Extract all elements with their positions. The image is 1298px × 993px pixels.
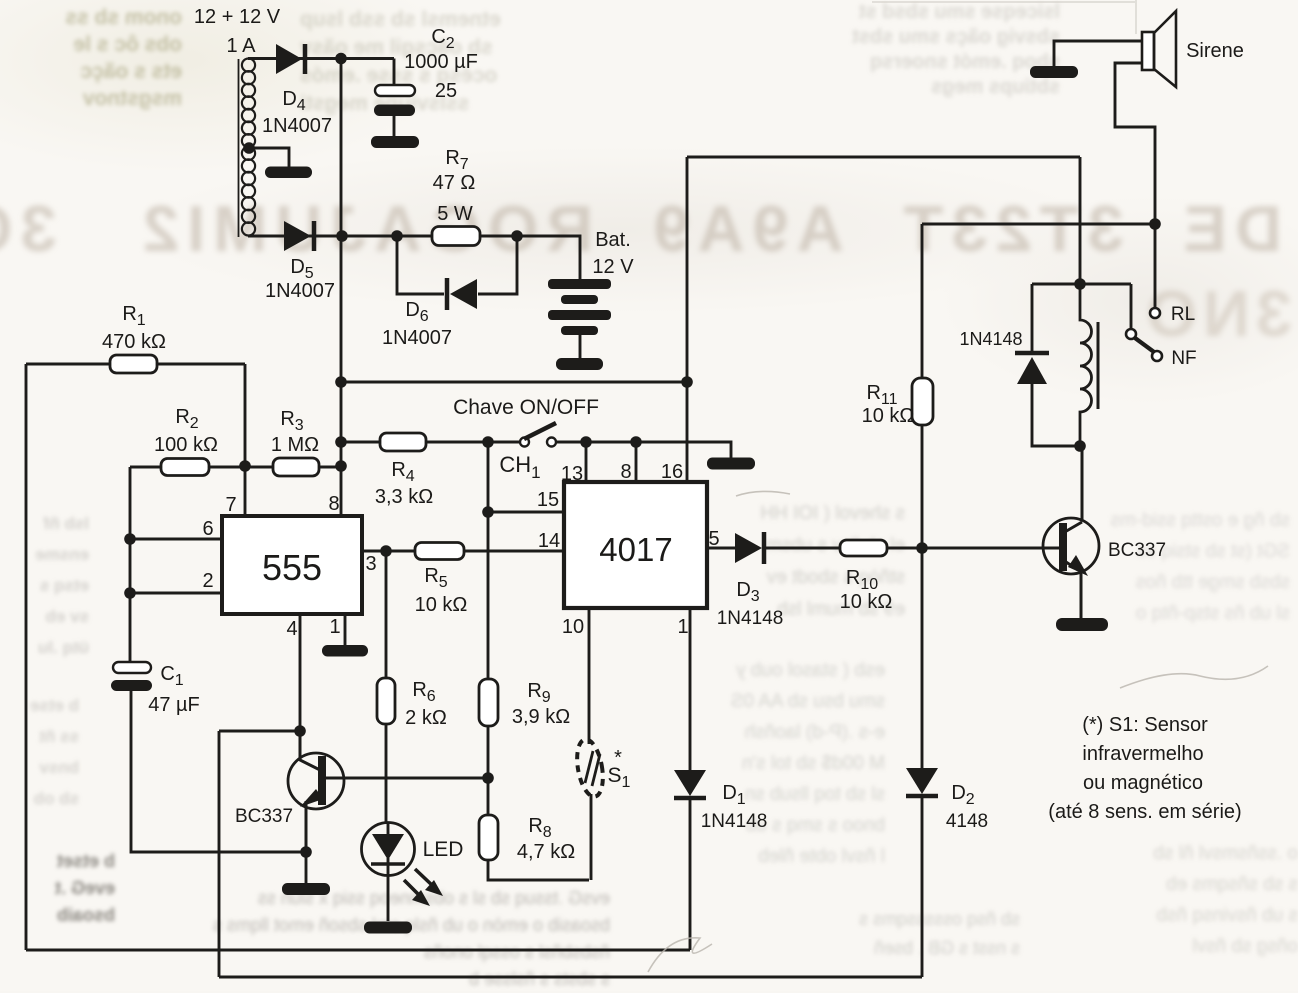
- svg-text:D5: D5: [290, 256, 313, 282]
- ground C2: [371, 136, 419, 148]
- capacitor C1: [113, 662, 151, 673]
- resistor R10: [840, 540, 887, 556]
- svg-text:4017: 4017: [599, 531, 672, 568]
- relay coil: [1080, 284, 1092, 446]
- resistor R8: [479, 815, 498, 860]
- svg-text:Bat.: Bat.: [595, 229, 631, 251]
- wire top rail y58: [248, 59, 394, 86]
- svg-text:D2: D2: [951, 782, 974, 808]
- LED LD1: [362, 823, 415, 876]
- relay contacts: [1130, 284, 1133, 329]
- svg-text:R5: R5: [424, 565, 447, 591]
- speaker driver: [1142, 32, 1154, 70]
- wire R6 vertical: [385, 551, 388, 678]
- svg-text:5 W: 5 W: [437, 203, 473, 225]
- diode D1: [674, 770, 706, 796]
- transformer T1 secondary winding: [242, 59, 255, 72]
- node Q1 emitter: [300, 846, 312, 858]
- node top of filter: [335, 53, 347, 65]
- wire RL up to rail: [1115, 63, 1155, 308]
- svg-text:1N4007: 1N4007: [382, 327, 452, 349]
- wire main vertical x342: [340, 59, 343, 517]
- svg-text:4,7 kΩ: 4,7 kΩ: [517, 841, 575, 863]
- svg-text:1N4148: 1N4148: [717, 608, 784, 629]
- LED arrows: [415, 869, 434, 887]
- svg-text:RL: RL: [1171, 304, 1195, 325]
- node R7 right: [511, 230, 523, 242]
- svg-text:8: 8: [328, 493, 339, 515]
- speaker cone: [1154, 11, 1176, 87]
- svg-text:Chave ON/OFF: Chave ON/OFF: [453, 396, 599, 419]
- svg-text:555: 555: [262, 547, 322, 588]
- svg-text:C2: C2: [431, 26, 454, 52]
- wire pin15: [488, 511, 564, 514]
- wire pin5 D3: [707, 547, 841, 550]
- svg-text:10 kΩ: 10 kΩ: [862, 405, 915, 427]
- svg-text:C1: C1: [160, 663, 183, 689]
- wire x130 vertical: [129, 467, 132, 663]
- big mirrored headline row 2: [1080, 276, 1292, 351]
- node R7 left: [391, 230, 403, 242]
- wire switch rail y442: [341, 442, 731, 458]
- resistor R4: [380, 433, 426, 451]
- svg-text:25: 25: [435, 80, 457, 102]
- node supply rail left: [335, 376, 347, 388]
- faint bleed table line v: [1135, 0, 1137, 34]
- wire pin1 stub: [344, 614, 347, 646]
- ground battery: [556, 358, 603, 370]
- middle column under 4017: [660, 498, 905, 658]
- wire pin8 stub: [635, 442, 638, 482]
- faint bleed table line h: [872, 1, 1136, 3]
- svg-text:D1: D1: [722, 782, 745, 808]
- transistor Q2 BC337: [1043, 518, 1099, 574]
- node D5 out: [336, 230, 348, 242]
- svg-text:R3: R3: [280, 408, 303, 434]
- svg-text:1 MΩ: 1 MΩ: [271, 434, 319, 456]
- svg-text:NF: NF: [1171, 348, 1196, 369]
- resistor R9: [479, 679, 498, 726]
- svg-text:15: 15: [537, 489, 559, 511]
- ground speaker: [1030, 66, 1078, 78]
- wire x488 vertical to R9: [487, 442, 490, 679]
- svg-text:2: 2: [202, 570, 213, 592]
- svg-text:1: 1: [677, 616, 688, 638]
- wire rail y224: [922, 223, 1155, 226]
- svg-text:R8: R8: [528, 815, 551, 841]
- node pin13: [580, 436, 592, 448]
- svg-text:R1: R1: [122, 303, 145, 329]
- svg-text:D3: D3: [736, 579, 759, 605]
- ground transformer tap: [265, 167, 312, 179]
- wire pin1 D1: [689, 608, 692, 950]
- diode D3: [735, 533, 762, 563]
- svg-text:6: 6: [202, 518, 213, 540]
- svg-text:4148: 4148: [946, 811, 988, 832]
- relay diode 1N4148: [1031, 284, 1034, 352]
- svg-text:47 µF: 47 µF: [148, 694, 200, 716]
- diode D5: [284, 221, 311, 251]
- svg-text:10 kΩ: 10 kΩ: [415, 594, 468, 616]
- wire center tap: [246, 148, 289, 167]
- battery B1: [548, 279, 611, 289]
- resistor R3: [245, 466, 341, 469]
- svg-text:1N4007: 1N4007: [265, 280, 335, 302]
- resistor R2: [130, 466, 245, 469]
- wire pin4 stub: [299, 614, 302, 731]
- wire D6 bypass: [397, 236, 517, 294]
- node supply rail right: [681, 376, 693, 388]
- node R10 right: [916, 542, 928, 554]
- wire collector branch left: [219, 731, 300, 977]
- svg-text:CH1: CH1: [499, 452, 540, 482]
- svg-text:1N4148: 1N4148: [959, 329, 1022, 349]
- svg-text:R9: R9: [527, 680, 550, 706]
- ground Q2: [1056, 618, 1108, 631]
- wire top rail y157: [687, 157, 1080, 284]
- ground 555 pin1: [322, 645, 368, 657]
- pencil mark mid: [736, 491, 790, 496]
- svg-text:3,9 kΩ: 3,9 kΩ: [512, 706, 570, 728]
- wire pin13 stub: [585, 442, 588, 482]
- svg-text:100 kΩ: 100 kΩ: [154, 434, 218, 456]
- capacitor C2: [375, 85, 415, 96]
- svg-text:D6: D6: [405, 299, 428, 325]
- svg-text:ou magnético: ou magnético: [1083, 772, 1203, 794]
- transformer T1 core: [238, 59, 240, 237]
- svg-text:12 + 12 V: 12 + 12 V: [194, 6, 281, 28]
- wire vertical x687 to pin16: [686, 157, 689, 482]
- svg-text:1: 1: [329, 616, 340, 638]
- switch CH1: [520, 438, 529, 447]
- wire pin3 R5: [362, 550, 564, 553]
- svg-text:R10: R10: [846, 567, 878, 593]
- svg-text:10 kΩ: 10 kΩ: [840, 591, 893, 613]
- BLEED LAYERS (reverse-page show-through): [2, 4, 182, 112]
- svg-text:3: 3: [365, 553, 376, 575]
- resistor R6: [377, 678, 395, 724]
- sensor S1 wire: [589, 608, 591, 880]
- svg-text:infravermelho: infravermelho: [1082, 743, 1203, 765]
- node R4 left: [335, 436, 347, 448]
- node Q2 collector: [1074, 440, 1086, 452]
- ground Q1: [282, 883, 330, 895]
- svg-text:Sirene: Sirene: [1186, 40, 1244, 62]
- wire pin6: [130, 538, 222, 541]
- big mirrored headline row 1: [20, 191, 1282, 266]
- svg-text:1N4007: 1N4007: [262, 115, 332, 137]
- node R3 right: [335, 460, 347, 472]
- IC U1 555: [222, 516, 362, 614]
- wire pin2: [130, 592, 222, 595]
- IC U2 4017: [564, 482, 707, 608]
- wire Q1 base: [324, 777, 488, 780]
- wire y236: [248, 236, 580, 280]
- svg-text:13: 13: [561, 463, 583, 485]
- wire speaker left: [1054, 41, 1143, 66]
- diode D2: [906, 768, 938, 794]
- node pin8b: [630, 436, 642, 448]
- wire bottom rail A: [26, 949, 690, 952]
- node center tap: [243, 142, 255, 154]
- svg-text:R6: R6: [412, 679, 435, 705]
- svg-text:12 V: 12 V: [592, 256, 634, 278]
- wire left frame: [25, 364, 28, 950]
- svg-text:5: 5: [708, 528, 719, 550]
- left column bleed text: [0, 508, 89, 663]
- svg-text:BC337: BC337: [235, 806, 293, 827]
- diode D4: [276, 44, 302, 74]
- svg-text:*: *: [614, 747, 622, 769]
- svg-text:3,3 kΩ: 3,3 kΩ: [375, 486, 433, 508]
- svg-text:10: 10: [562, 616, 584, 638]
- svg-text:R7: R7: [445, 147, 468, 173]
- wire pin7 stub: [244, 466, 247, 516]
- right column bleed: [1000, 505, 1290, 629]
- resistor R5: [415, 543, 464, 560]
- node sw a: [482, 436, 494, 448]
- svg-text:LED: LED: [423, 838, 464, 861]
- svg-text:8: 8: [620, 461, 631, 483]
- transistor Q1 BC337: [288, 753, 344, 809]
- svg-text:1000 µF: 1000 µF: [404, 51, 478, 73]
- wire D2 vertical: [921, 548, 924, 977]
- svg-text:(*) S1: Sensor: (*) S1: Sensor: [1082, 714, 1208, 736]
- svg-text:4: 4: [286, 618, 297, 640]
- diode D6: [445, 278, 450, 310]
- wire bottom rail B: [219, 976, 922, 979]
- svg-text:2 kΩ: 2 kΩ: [405, 707, 447, 729]
- svg-text:BC337: BC337: [1108, 540, 1166, 561]
- svg-text:(até 8 sens. em série): (até 8 sens. em série): [1048, 801, 1241, 823]
- svg-text:470 kΩ: 470 kΩ: [102, 331, 166, 353]
- svg-text:47 Ω: 47 Ω: [433, 172, 476, 194]
- svg-text:D4: D4: [282, 88, 305, 114]
- svg-text:1N4148: 1N4148: [701, 811, 768, 832]
- node Q1 collector: [294, 725, 306, 737]
- svg-text:R2: R2: [175, 406, 198, 432]
- pencil mark right: [1120, 666, 1268, 688]
- resistor R1: [26, 364, 245, 466]
- svg-text:R4: R4: [391, 459, 414, 485]
- resistor R7: [432, 227, 480, 246]
- ground switch rail: [707, 458, 755, 470]
- relay RL1 top wire: [1032, 283, 1131, 286]
- sensor S1: [573, 737, 607, 798]
- svg-text:16: 16: [661, 461, 683, 483]
- node R2R3: [239, 460, 251, 472]
- wire supply rail y382: [341, 381, 687, 384]
- pencil mark bottom: [648, 938, 712, 972]
- ground LED: [364, 922, 412, 934]
- svg-text:1 A: 1 A: [227, 35, 257, 57]
- resistor R11: [921, 224, 924, 548]
- node R9 R8 base: [482, 772, 494, 784]
- svg-text:7: 7: [225, 494, 236, 516]
- relay core: [1097, 322, 1100, 409]
- svg-text:14: 14: [538, 530, 560, 552]
